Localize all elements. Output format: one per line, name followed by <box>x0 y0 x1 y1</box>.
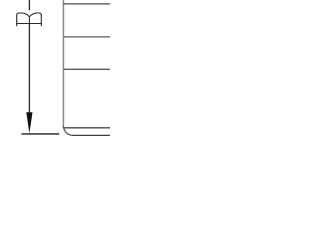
row divider (third) <box>63 68 110 70</box>
row divider (second) <box>63 36 110 38</box>
sheet bottom edge <box>73 134 110 136</box>
row divider (top) <box>63 3 110 5</box>
coil/bell symbol (two-arc winding) <box>16 13 42 26</box>
node/rail line under arrow <box>22 133 60 135</box>
wire (top vertical segment into coil) <box>28 0 30 10</box>
rounded sheet corner <box>63 126 73 136</box>
wire (vertical segment from coil to arrow) <box>28 24 30 113</box>
row divider (bottom inner) <box>63 127 110 129</box>
sheet border vertical line <box>62 0 64 126</box>
arrow (solid down arrowhead) <box>26 112 32 133</box>
